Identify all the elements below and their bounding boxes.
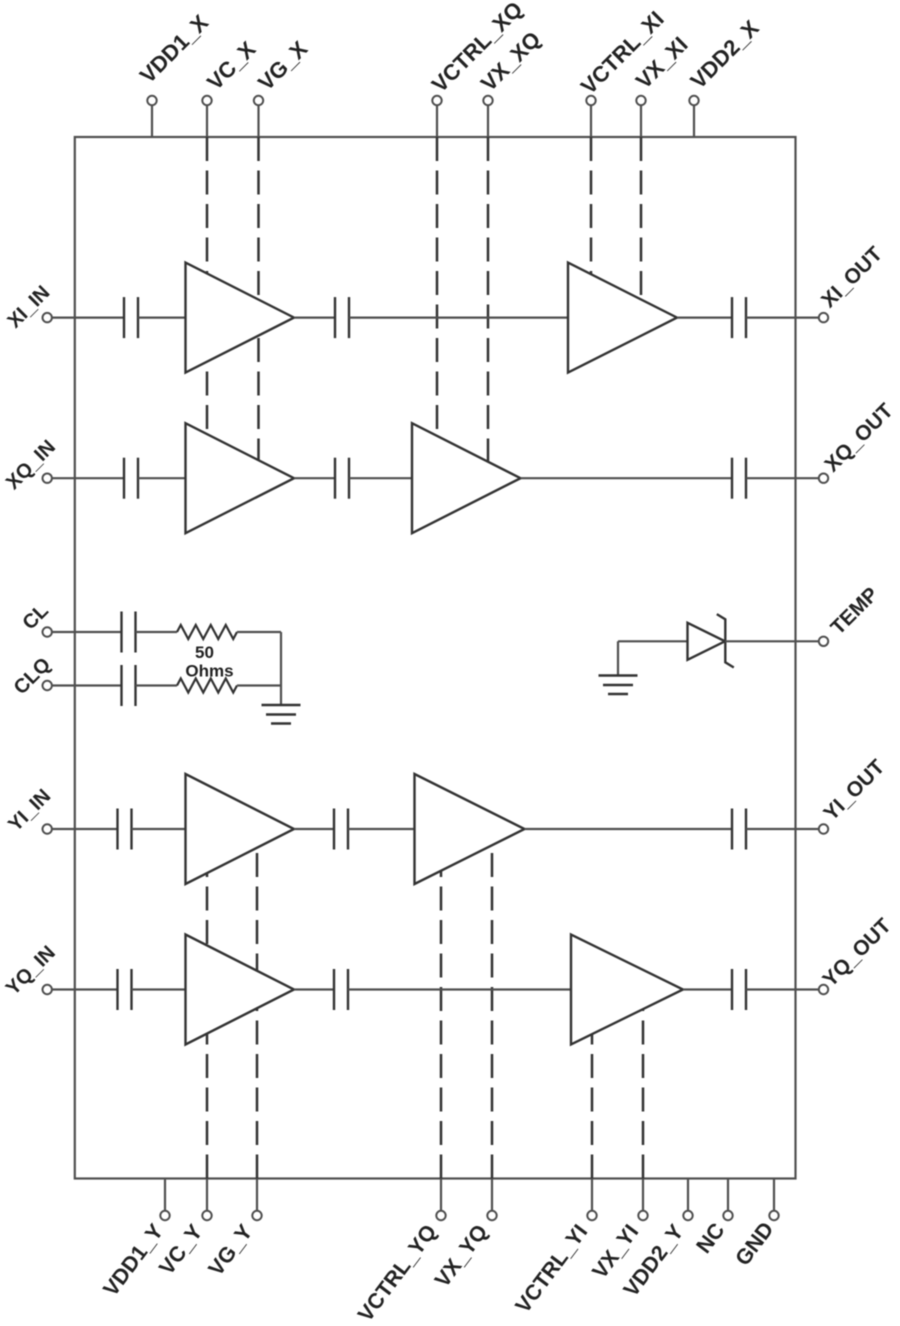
wire YI input bbox=[52, 828, 118, 830]
VC_X bias dashed line bbox=[206, 137, 209, 470]
VX_XQ bias dashed line bbox=[487, 137, 490, 470]
pin circle GND bbox=[769, 1211, 778, 1220]
wire second amp to C14 bbox=[683, 988, 732, 990]
pin circle VCTRL_YQ bbox=[436, 1211, 445, 1220]
wire CL input bbox=[52, 631, 122, 633]
VCTRL_XQ bias dashed line bbox=[436, 137, 439, 470]
op-amp YQ first amplifier bbox=[186, 935, 295, 1045]
pin stub VDD1_Y bbox=[164, 1179, 166, 1211]
wire second amp to C3 bbox=[677, 317, 732, 319]
pin circle YQ_IN bbox=[43, 985, 52, 994]
wire temp-diode anode bbox=[618, 640, 688, 642]
pin circle TEMP bbox=[819, 637, 828, 646]
op-amp YI second amplifier bbox=[415, 774, 525, 884]
pin circle VG_X bbox=[254, 96, 263, 105]
pin circle YI_IN bbox=[43, 824, 52, 833]
pin circle NC bbox=[723, 1211, 732, 1220]
capacitor C10 (YI interstage) bbox=[334, 809, 348, 850]
pin stub GND bbox=[773, 1179, 775, 1211]
pin circle VX_YI bbox=[638, 1211, 647, 1220]
pin circle CLQ bbox=[43, 681, 52, 690]
wire first amp to C5 bbox=[294, 477, 335, 479]
pin stub VC_X bbox=[206, 105, 208, 137]
wire C1 to first amp bbox=[138, 317, 186, 319]
pin circle YQ_OUT bbox=[819, 985, 828, 994]
capacitor C14 (YQ output) bbox=[732, 969, 746, 1010]
wire C8 to resistor bbox=[136, 684, 178, 686]
wire C4 to first amp bbox=[138, 477, 186, 479]
capacitor C2 (XI interstage) bbox=[335, 297, 349, 338]
pin circle XI_OUT bbox=[819, 313, 828, 322]
capacitor C13 (YQ interstage) bbox=[334, 969, 348, 1010]
pin stub VX_XQ bbox=[487, 105, 489, 137]
wire C12 to first amp bbox=[132, 988, 186, 990]
pin stub VCTRL_XI bbox=[590, 105, 592, 137]
VG_Y bias dashed line bbox=[256, 838, 259, 1179]
pin circle VCTRL_XI bbox=[586, 96, 595, 105]
op-amp XI first amplifier bbox=[186, 263, 295, 373]
pin stub VX_YI bbox=[642, 1179, 644, 1211]
pin circle VDD2_X bbox=[689, 96, 698, 105]
wire second amp to C11 bbox=[525, 828, 733, 830]
wire C3 to output pin bbox=[746, 317, 819, 319]
op-amp YQ second amplifier bbox=[571, 935, 683, 1045]
diode D1 (temperature sense) bbox=[688, 623, 726, 660]
pin circle VCTRL_YI bbox=[587, 1211, 596, 1220]
wire C9 to first amp bbox=[132, 828, 186, 830]
pin stub VCTRL_XQ bbox=[436, 105, 438, 137]
capacitor C1 (XI input) bbox=[124, 297, 138, 338]
capacitor C11 (YI output) bbox=[732, 809, 746, 850]
pin circle VC_X bbox=[202, 96, 211, 105]
capacitor C5 (XQ interstage) bbox=[335, 458, 349, 499]
pin circle VX_YQ bbox=[487, 1211, 496, 1220]
wire R2 to termination node bbox=[237, 684, 281, 686]
pin circle CL bbox=[43, 627, 52, 636]
ground (termination) bbox=[262, 705, 301, 724]
wire C11 to output pin bbox=[746, 828, 819, 830]
VX_YI bias dashed line bbox=[642, 999, 645, 1179]
pin stub VC_Y bbox=[206, 1179, 208, 1211]
pin circle VDD1_X bbox=[147, 96, 156, 105]
pin circle VDD2_Y bbox=[683, 1211, 692, 1220]
capacitor C7 (CL) bbox=[122, 612, 136, 653]
op-amp XI second amplifier bbox=[568, 263, 677, 373]
wire CLQ input bbox=[52, 684, 122, 686]
pin stub VG_X bbox=[257, 105, 259, 137]
VCTRL_YQ bias dashed line bbox=[440, 842, 443, 1179]
pin stub VX_XI bbox=[640, 105, 642, 137]
pin circle VDD1_Y bbox=[160, 1211, 169, 1220]
resistor R2 (50 Ohms CLQ leg) bbox=[177, 679, 237, 693]
wire C14 to output pin bbox=[746, 988, 819, 990]
op-amp XQ second amplifier bbox=[412, 423, 521, 533]
pin stub VDD2_X bbox=[693, 105, 695, 137]
wire C10 to second amp bbox=[348, 828, 415, 830]
VG_X bias dashed line bbox=[257, 137, 260, 470]
pin stub VCTRL_YQ bbox=[440, 1179, 442, 1211]
VX_YQ bias dashed line bbox=[491, 842, 494, 1179]
resistor R1 (50 Ohms CL leg) bbox=[177, 625, 237, 639]
pin circle VG_Y bbox=[252, 1211, 261, 1220]
wire second amp to C6 bbox=[521, 477, 733, 479]
pin circle XQ_OUT bbox=[819, 474, 828, 483]
op-amp YI first amplifier bbox=[186, 774, 295, 884]
wire XQ input bbox=[52, 477, 124, 479]
pin circle VX_XQ bbox=[483, 96, 492, 105]
pin circle VX_XI bbox=[636, 96, 645, 105]
wire first amp to C13 bbox=[294, 988, 334, 990]
pin stub VCTRL_YI bbox=[591, 1179, 593, 1211]
wire C2 to second amp bbox=[349, 317, 568, 319]
capacitor C4 (XQ input) bbox=[124, 458, 138, 499]
svg-text:50: 50 bbox=[195, 643, 214, 662]
capacitor C3 (XI output) bbox=[732, 297, 746, 338]
wire C5 to second amp bbox=[349, 477, 412, 479]
VCTRL_XI bias dashed line bbox=[590, 137, 593, 310]
wire C6 to output pin bbox=[746, 477, 819, 479]
IC boundary box bbox=[75, 137, 796, 1179]
pin circle VCTRL_XQ bbox=[432, 96, 441, 105]
wire C7 to resistor bbox=[136, 631, 178, 633]
pin stub VG_Y bbox=[256, 1179, 258, 1211]
pin stub VDD2_Y bbox=[687, 1179, 689, 1211]
pin stub VDD1_X bbox=[151, 105, 153, 137]
wire XI input bbox=[52, 317, 124, 319]
VCTRL_YI bias dashed line bbox=[591, 999, 594, 1179]
VX_XI bias dashed line bbox=[640, 137, 643, 310]
ground (temp diode) bbox=[599, 676, 638, 695]
pin stub NC bbox=[727, 1179, 729, 1211]
wire C13 to second amp bbox=[348, 988, 571, 990]
wire termination node to ground bbox=[280, 632, 282, 705]
wire anode ground drop bbox=[617, 641, 619, 675]
wire R1 to termination node bbox=[237, 631, 281, 633]
capacitor C6 (XQ output) bbox=[732, 458, 746, 499]
wire first amp to C10 bbox=[294, 828, 334, 830]
capacitor C9 (YI input) bbox=[118, 809, 132, 850]
op-amp XQ first amplifier bbox=[186, 423, 295, 533]
wire D1 cathode to TEMP pin bbox=[725, 640, 819, 642]
pin circle XI_IN bbox=[43, 313, 52, 322]
pin stub VX_YQ bbox=[491, 1179, 493, 1211]
VC_Y bias dashed line bbox=[206, 838, 209, 1179]
pin circle XQ_IN bbox=[43, 474, 52, 483]
capacitor C12 (YQ input) bbox=[118, 969, 132, 1010]
capacitor C8 (CLQ) bbox=[122, 665, 136, 706]
wire YQ input bbox=[52, 988, 118, 990]
wire first amp to C2 bbox=[294, 317, 335, 319]
pin circle YI_OUT bbox=[819, 824, 828, 833]
svg-text:Ohms: Ohms bbox=[185, 662, 233, 681]
pin circle VC_Y bbox=[202, 1211, 211, 1220]
